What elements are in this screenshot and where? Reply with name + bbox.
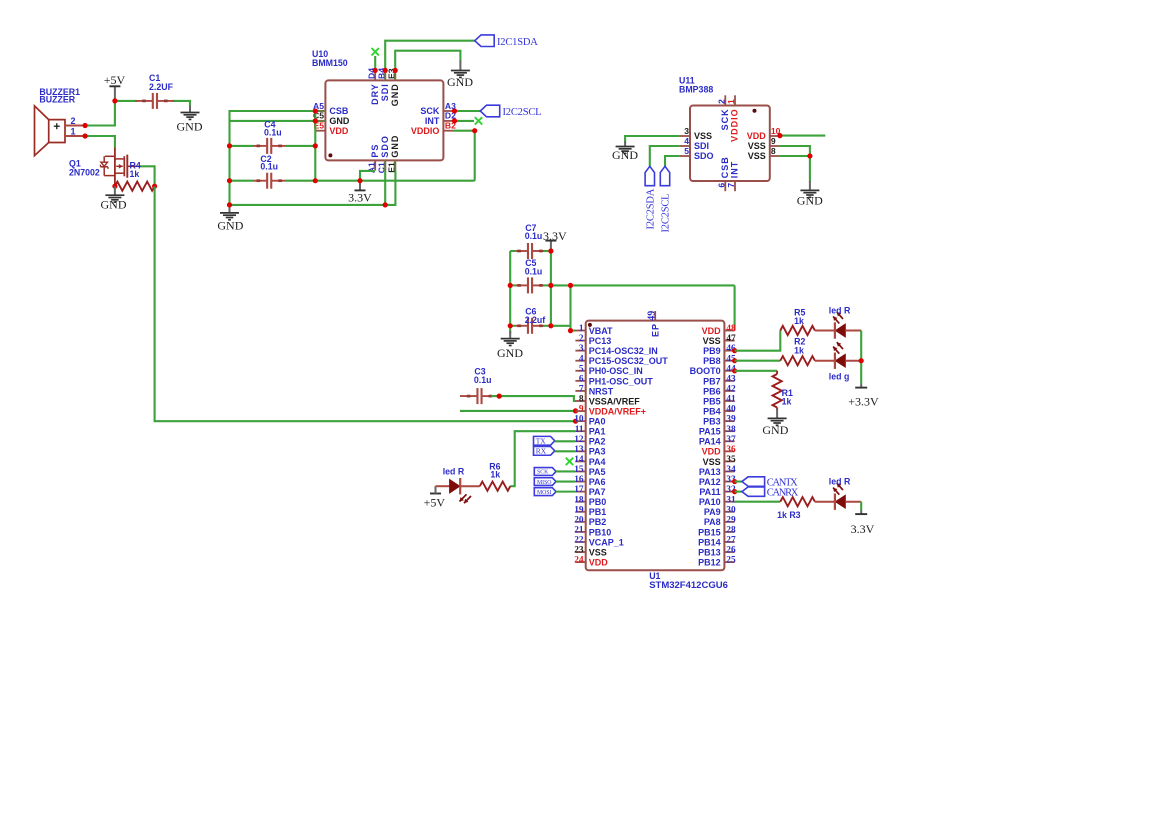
svg-text:PB14: PB14 — [698, 537, 721, 547]
svg-text:1: 1 — [71, 126, 76, 136]
svg-text:VDD: VDD — [702, 326, 722, 336]
svg-text:BUZZER: BUZZER — [39, 95, 75, 105]
svg-text:PA2: PA2 — [589, 437, 606, 447]
svg-text:17: 17 — [574, 485, 584, 495]
svg-text:0.1u: 0.1u — [474, 375, 492, 385]
svg-text:SDO: SDO — [380, 135, 390, 158]
svg-text:PB3: PB3 — [703, 417, 721, 427]
svg-text:16: 16 — [574, 475, 584, 485]
svg-text:VBAT: VBAT — [589, 326, 613, 336]
svg-text:43: 43 — [726, 374, 736, 384]
svg-text:36: 36 — [726, 445, 736, 455]
svg-text:41: 41 — [726, 395, 736, 405]
svg-text:PA6: PA6 — [589, 477, 606, 487]
svg-text:GND: GND — [762, 423, 788, 437]
svg-text:PA1: PA1 — [589, 427, 606, 437]
svg-text:8: 8 — [579, 395, 584, 405]
svg-text:0.1u: 0.1u — [525, 231, 543, 241]
svg-text:VSS: VSS — [589, 547, 607, 557]
svg-text:3.3V: 3.3V — [851, 522, 875, 536]
svg-text:VDD: VDD — [702, 447, 722, 457]
svg-text:led R: led R — [829, 476, 851, 486]
svg-text:BOOT0: BOOT0 — [690, 366, 721, 376]
svg-text:5: 5 — [579, 364, 584, 374]
svg-text:1k: 1k — [794, 345, 804, 355]
svg-text:VDD: VDD — [747, 131, 767, 141]
svg-text:SCK: SCK — [720, 108, 730, 130]
svg-text:25: 25 — [726, 556, 736, 566]
svg-text:+5V: +5V — [424, 496, 446, 510]
svg-text:3: 3 — [684, 126, 689, 136]
svg-text:PH0-OSC_IN: PH0-OSC_IN — [589, 366, 643, 376]
svg-text:48: 48 — [726, 324, 736, 334]
svg-text:21: 21 — [574, 526, 584, 536]
svg-text:18: 18 — [574, 495, 584, 505]
svg-text:PB4: PB4 — [703, 406, 721, 416]
svg-text:PB13: PB13 — [698, 547, 721, 557]
svg-text:BMM150: BMM150 — [312, 58, 348, 68]
svg-text:CSB: CSB — [329, 106, 349, 116]
svg-text:9: 9 — [771, 136, 776, 146]
svg-text:2.2UF: 2.2UF — [149, 82, 174, 92]
svg-text:STM32F412CGU6: STM32F412CGU6 — [649, 580, 728, 591]
svg-text:PB9: PB9 — [703, 346, 721, 356]
svg-text:4: 4 — [684, 136, 689, 146]
svg-text:24: 24 — [574, 556, 584, 566]
svg-text:I2C2SDA: I2C2SDA — [645, 188, 656, 229]
svg-text:1: 1 — [726, 99, 736, 104]
svg-text:PB10: PB10 — [589, 527, 612, 537]
svg-text:PB15: PB15 — [698, 527, 721, 537]
svg-text:+3.3V: +3.3V — [848, 395, 879, 409]
svg-text:PC13: PC13 — [589, 336, 612, 346]
svg-text:29: 29 — [726, 515, 736, 525]
svg-text:2.2uf: 2.2uf — [525, 315, 546, 325]
svg-text:22: 22 — [574, 536, 584, 546]
svg-text:PB2: PB2 — [589, 517, 607, 527]
svg-text:VDDA/VREF+: VDDA/VREF+ — [589, 406, 646, 416]
svg-text:PB12: PB12 — [698, 558, 721, 568]
svg-text:10: 10 — [574, 415, 584, 425]
svg-text:GND: GND — [217, 218, 243, 232]
svg-text:6: 6 — [579, 374, 584, 384]
svg-text:PA12: PA12 — [699, 477, 721, 487]
svg-text:2: 2 — [579, 334, 584, 344]
svg-text:RX: RX — [536, 447, 547, 456]
svg-text:1k: 1k — [782, 397, 792, 407]
svg-text:VDD: VDD — [329, 126, 349, 136]
svg-text:1k: 1k — [794, 316, 804, 326]
svg-text:0.1u: 0.1u — [525, 266, 543, 276]
svg-text:PA3: PA3 — [589, 447, 606, 457]
svg-text:PS: PS — [370, 144, 380, 158]
svg-text:3: 3 — [579, 344, 584, 354]
svg-text:PB0: PB0 — [589, 497, 607, 507]
svg-text:DRY: DRY — [370, 83, 380, 105]
svg-text:39: 39 — [726, 415, 736, 425]
svg-text:PA4: PA4 — [589, 457, 606, 467]
svg-text:9: 9 — [579, 405, 584, 415]
svg-text:PA10: PA10 — [699, 497, 721, 507]
svg-text:PB1: PB1 — [589, 507, 607, 517]
svg-text:31: 31 — [726, 495, 736, 505]
svg-text:1: 1 — [579, 324, 584, 334]
svg-text:led g: led g — [829, 371, 850, 381]
svg-text:GND: GND — [177, 120, 203, 134]
svg-text:PC14-OSC32_IN: PC14-OSC32_IN — [589, 346, 658, 356]
svg-text:0.1u: 0.1u — [264, 127, 282, 137]
svg-text:12: 12 — [574, 435, 584, 445]
svg-text:3.3V: 3.3V — [348, 191, 372, 205]
svg-text:PA5: PA5 — [589, 467, 606, 477]
svg-text:42: 42 — [726, 385, 736, 395]
svg-text:VCAP_1: VCAP_1 — [589, 537, 624, 547]
svg-text:MISO: MISO — [537, 480, 552, 486]
svg-text:PA11: PA11 — [699, 487, 720, 497]
svg-text:+5V: +5V — [104, 73, 126, 87]
svg-text:35: 35 — [726, 455, 736, 465]
svg-text:30: 30 — [726, 505, 736, 515]
svg-text:GND: GND — [390, 135, 400, 158]
svg-text:BMP388: BMP388 — [679, 84, 713, 94]
svg-text:MOSI: MOSI — [537, 490, 552, 496]
svg-text:11: 11 — [575, 425, 584, 435]
svg-text:PA0: PA0 — [589, 417, 606, 427]
svg-text:37: 37 — [726, 435, 736, 445]
svg-text:VSS: VSS — [748, 141, 766, 151]
svg-text:7: 7 — [726, 183, 736, 188]
svg-text:40: 40 — [726, 405, 736, 415]
svg-text:PA8: PA8 — [704, 517, 721, 527]
svg-text:20: 20 — [574, 515, 584, 525]
svg-text:1k: 1k — [130, 169, 140, 179]
svg-text:6: 6 — [716, 183, 726, 188]
svg-text:5: 5 — [684, 146, 689, 156]
svg-text:3.3V: 3.3V — [543, 229, 567, 243]
svg-text:2: 2 — [716, 99, 726, 104]
svg-text:19: 19 — [574, 505, 584, 515]
svg-text:GND: GND — [101, 198, 127, 212]
svg-text:PB5: PB5 — [703, 396, 721, 406]
svg-text:PB8: PB8 — [703, 356, 721, 366]
svg-text:PC15-OSC32_OUT: PC15-OSC32_OUT — [589, 356, 669, 366]
svg-text:TX: TX — [536, 436, 547, 445]
svg-text:0.1u: 0.1u — [260, 162, 278, 172]
svg-text:2N7002: 2N7002 — [69, 167, 100, 177]
svg-text:13: 13 — [574, 445, 584, 455]
svg-text:PA14: PA14 — [699, 437, 721, 447]
svg-text:VSS: VSS — [703, 457, 721, 467]
svg-text:PA7: PA7 — [589, 487, 606, 497]
svg-text:led R: led R — [829, 306, 851, 316]
svg-text:VSS: VSS — [703, 336, 721, 346]
svg-text:1k R3: 1k R3 — [777, 510, 801, 520]
svg-text:15: 15 — [574, 465, 584, 475]
svg-text:I2C1SDA: I2C1SDA — [497, 37, 538, 48]
svg-text:1k: 1k — [490, 470, 500, 480]
svg-text:4: 4 — [579, 354, 584, 364]
svg-text:47: 47 — [726, 334, 736, 344]
svg-text:VDD: VDD — [589, 558, 609, 568]
svg-text:VDDIO: VDDIO — [411, 126, 440, 136]
svg-text:VSSA/VREF: VSSA/VREF — [589, 396, 641, 406]
svg-text:8: 8 — [771, 146, 776, 156]
svg-text:38: 38 — [726, 425, 736, 435]
svg-text:I2C2SCL: I2C2SCL — [503, 107, 542, 118]
svg-text:INT: INT — [730, 161, 740, 179]
svg-text:14: 14 — [574, 455, 584, 465]
svg-text:INT: INT — [425, 116, 440, 126]
svg-text:VSS: VSS — [748, 151, 766, 161]
svg-text:PH1-OSC_OUT: PH1-OSC_OUT — [589, 376, 654, 386]
svg-text:I2C2SCL: I2C2SCL — [661, 194, 672, 233]
svg-text:PB7: PB7 — [703, 376, 721, 386]
svg-text:EP: EP — [650, 323, 660, 337]
svg-text:VDDIO: VDDIO — [730, 108, 740, 142]
svg-text:PA13: PA13 — [699, 467, 721, 477]
svg-text:PA9: PA9 — [704, 507, 721, 517]
svg-text:49: 49 — [646, 311, 657, 321]
svg-text:SDI: SDI — [380, 83, 390, 101]
svg-text:NRST: NRST — [589, 386, 614, 396]
svg-text:SDI: SDI — [694, 141, 709, 151]
svg-text:2: 2 — [71, 116, 76, 126]
svg-text:GND: GND — [329, 116, 350, 126]
svg-text:28: 28 — [726, 526, 736, 536]
svg-text:27: 27 — [726, 536, 736, 546]
svg-text:SDO: SDO — [694, 151, 714, 161]
svg-text:SCK: SCK — [537, 470, 549, 476]
svg-text:GND: GND — [447, 75, 473, 89]
svg-text:GND: GND — [390, 83, 400, 106]
svg-text:34: 34 — [726, 465, 736, 475]
svg-text:CSB: CSB — [720, 156, 730, 178]
svg-text:SCK: SCK — [420, 106, 440, 116]
svg-text:PA15: PA15 — [699, 427, 721, 437]
svg-text:GND: GND — [497, 346, 523, 360]
svg-text:VSS: VSS — [694, 131, 712, 141]
svg-text:led R: led R — [443, 467, 465, 477]
svg-text:26: 26 — [726, 546, 736, 556]
svg-text:GND: GND — [612, 148, 638, 162]
svg-text:23: 23 — [574, 546, 584, 556]
svg-text:GND: GND — [797, 194, 823, 208]
svg-text:PB6: PB6 — [703, 386, 721, 396]
svg-text:7: 7 — [579, 385, 584, 395]
